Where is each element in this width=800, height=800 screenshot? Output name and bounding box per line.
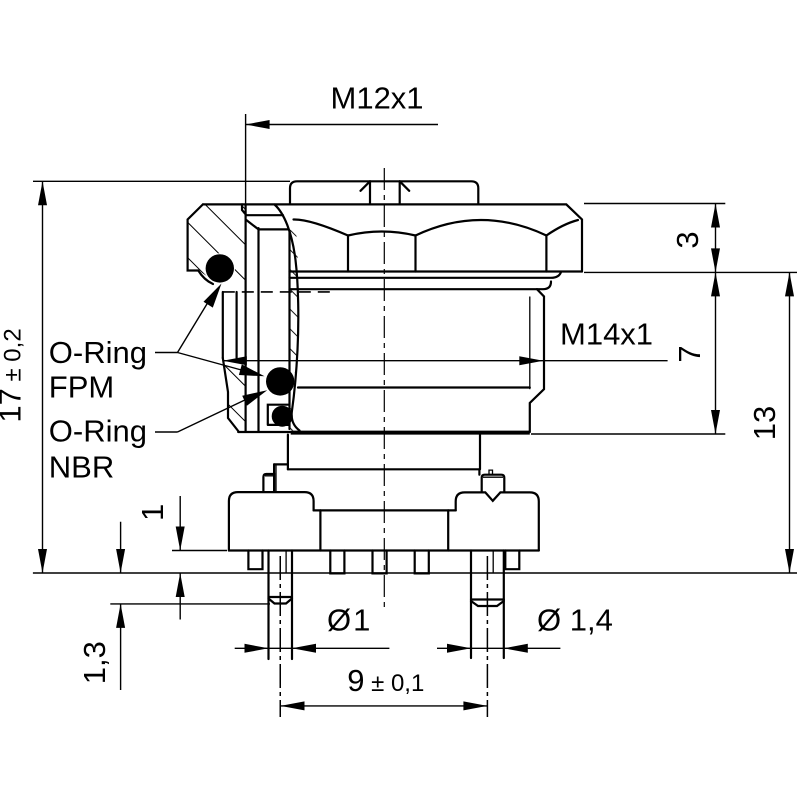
clamp ring bar [242, 204, 288, 431]
gasket outer curve [275, 205, 300, 431]
leader to mid O-ring [178, 353, 246, 372]
center solder stubs [330, 551, 344, 574]
svg-text:Ø1: Ø1 [327, 603, 370, 638]
label O-Ring FPM [49, 284, 265, 405]
body bottom [229, 549, 539, 551]
dimension 13 [747, 272, 794, 573]
dimension 1 [135, 496, 227, 620]
svg-text:7: 7 [672, 345, 707, 362]
svg-text:O-Ring: O-Ring [49, 413, 147, 448]
O-ring FPM section circle [206, 254, 234, 282]
leader to FPM O-ring [178, 294, 214, 353]
left latch ear [263, 464, 276, 492]
main centerline [383, 168, 385, 608]
washer 1 under nut [290, 272, 562, 278]
small O-ring pocket box [268, 405, 290, 425]
barrel bottom thick edge [291, 431, 530, 435]
left pin dia 1 [269, 551, 293, 718]
keyway slot [370, 181, 400, 203]
label O-Ring NBR [49, 390, 267, 484]
hidden line dashed [223, 291, 335, 293]
svg-text:13: 13 [747, 406, 782, 440]
dimension 17 +-0,2 [0, 181, 797, 573]
flange bottom edge [238, 431, 291, 433]
seal sliver hatched between edge and curve [263, 205, 299, 431]
flange section hatched upper block [188, 204, 246, 292]
insulator body right block with V notch [456, 492, 539, 550]
svg-text:FPM: FPM [49, 370, 114, 405]
svg-text:1,3: 1,3 [77, 641, 112, 684]
dimension 1,3 [77, 522, 270, 690]
dimension M12x1 [246, 81, 438, 205]
nut face divider lines [348, 236, 546, 272]
svg-text:3: 3 [670, 231, 705, 248]
top cap [290, 181, 478, 203]
right coding ear [482, 470, 505, 492]
insert block below barrel [274, 435, 480, 492]
nut and washer left hidden edge [288, 231, 290, 430]
dimension 7 [531, 272, 725, 434]
center recess [314, 509, 456, 511]
insulator body left block [229, 492, 314, 550]
hex nut [203, 204, 582, 271]
O-ring NBR small section circle [272, 406, 293, 427]
svg-text:17 ± 0,2: 17 ± 0,2 [0, 328, 28, 422]
svg-text:NBR: NBR [49, 450, 114, 485]
left mounting foot [248, 551, 262, 570]
washer 2 under nut [290, 282, 552, 290]
O-ring mid section circle [266, 367, 294, 395]
threaded barrel M14 [291, 289, 544, 432]
flange section hatched lower stem [223, 292, 246, 431]
dimension dia 1 [235, 603, 390, 653]
dimension 9 +-0,1 [281, 663, 488, 710]
dimension M14x1 thread callout [223, 317, 668, 366]
leader to NBR O-ring [178, 399, 249, 433]
svg-text:M12x1: M12x1 [331, 81, 424, 116]
right mounting foot [505, 551, 519, 570]
dimension 3 [584, 204, 797, 273]
right pin dia 1.4 [471, 551, 504, 718]
svg-text:Ø 1,4: Ø 1,4 [537, 603, 613, 638]
nut chamfer arcs [294, 219, 349, 235]
svg-text:1: 1 [135, 504, 170, 521]
svg-text:O-Ring: O-Ring [49, 335, 147, 370]
dimension dia 1,4 [437, 603, 613, 653]
svg-text:M14x1: M14x1 [560, 317, 653, 352]
